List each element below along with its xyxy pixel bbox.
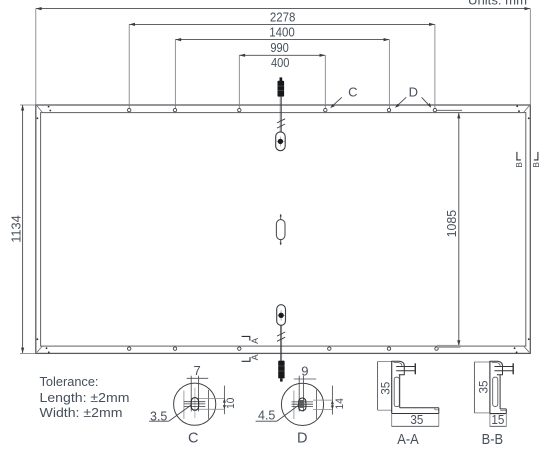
- svg-text:Width: ±2mm: Width: ±2mm: [40, 406, 123, 420]
- section A-A profile: [392, 361, 439, 414]
- svg-text:35: 35: [410, 413, 423, 427]
- frame corner screws: [37, 105, 530, 353]
- bottom cable break marks: [277, 332, 285, 341]
- bottom cable: [279, 325, 281, 360]
- section mark B right: [534, 152, 538, 160]
- svg-text:1134: 1134: [8, 215, 23, 243]
- top cable break marks: [277, 119, 285, 128]
- bottom connector nub: [280, 378, 283, 381]
- svg-text:Length: ±2mm: Length: ±2mm: [40, 391, 130, 405]
- detail C dim 10: [223, 386, 225, 415]
- svg-text:Units: mm: Units: mm: [468, 0, 527, 8]
- mounting holes bottom edge: [128, 347, 439, 350]
- corner chamfer bottom-right: [524, 346, 530, 352]
- svg-text:Tolerance:: Tolerance:: [40, 375, 99, 389]
- corner chamfer top-left: [37, 106, 43, 113]
- dim 1400 line: [129, 24, 435, 108]
- section B-B dim 15: [489, 414, 491, 427]
- svg-text:B: B: [514, 162, 524, 168]
- svg-text:400: 400: [271, 55, 290, 70]
- svg-text:C: C: [188, 431, 198, 447]
- svg-text:2278: 2278: [270, 9, 296, 24]
- detail C dim 7: [187, 377, 209, 379]
- detail D dim 9: [294, 378, 316, 380]
- bottom ground lug: [277, 305, 286, 326]
- dim 990 line: [175, 40, 389, 109]
- top connector nub: [280, 77, 283, 81]
- svg-text:A-A: A-A: [397, 432, 419, 448]
- section B-B profile: [490, 361, 514, 414]
- section A-A dim 35 horizontal: [391, 414, 393, 427]
- middle junction stadium: [280, 214, 282, 217]
- bottom connector body: [278, 361, 284, 379]
- svg-text:35: 35: [380, 382, 392, 395]
- svg-text:990: 990: [270, 40, 289, 55]
- svg-text:14: 14: [334, 398, 346, 409]
- svg-text:D: D: [409, 85, 418, 100]
- corner chamfer top-right: [524, 106, 530, 113]
- svg-text:15: 15: [491, 413, 504, 427]
- corner chamfer bottom-left: [37, 346, 43, 352]
- dim 1085 line: [458, 113, 460, 347]
- section B-B dim 35 vertical: [473, 362, 475, 413]
- label D leader: [422, 97, 430, 106]
- section mark A bottom: [242, 357, 250, 361]
- slot line top edge: [436, 109, 462, 111]
- section A-A dim 35 vertical: [377, 362, 379, 411]
- dim 1134 line: [20, 105, 36, 353]
- slot bar bottom edge: [437, 345, 461, 348]
- svg-text:B-B: B-B: [482, 432, 504, 448]
- svg-text:35: 35: [479, 381, 491, 394]
- svg-text:7: 7: [193, 363, 200, 378]
- svg-text:C: C: [348, 85, 357, 100]
- svg-text:10: 10: [225, 398, 237, 409]
- panel inner frame: [41, 113, 526, 347]
- section mark A top: [242, 336, 250, 340]
- svg-text:4.5: 4.5: [258, 408, 275, 422]
- detail D dim 14: [331, 386, 333, 415]
- top connector body: [278, 81, 285, 97]
- svg-text:1400: 1400: [269, 25, 295, 40]
- top cable: [279, 97, 281, 133]
- mounting holes top edge: [128, 108, 437, 111]
- svg-text:A: A: [250, 338, 260, 344]
- detail D circle: [281, 376, 332, 426]
- detail C circle: [174, 376, 225, 426]
- dim 2278 line: [36, 9, 531, 105]
- section mark B left: [517, 152, 521, 160]
- dim 400 line: [239, 55, 325, 108]
- svg-text:9: 9: [301, 364, 308, 379]
- panel outer frame: [36, 105, 531, 353]
- svg-text:A: A: [250, 354, 260, 360]
- svg-text:B: B: [531, 162, 541, 168]
- svg-text:1085: 1085: [444, 210, 459, 238]
- label C leader: [332, 97, 342, 106]
- svg-text:D: D: [297, 431, 307, 447]
- top ground lug: [276, 132, 286, 151]
